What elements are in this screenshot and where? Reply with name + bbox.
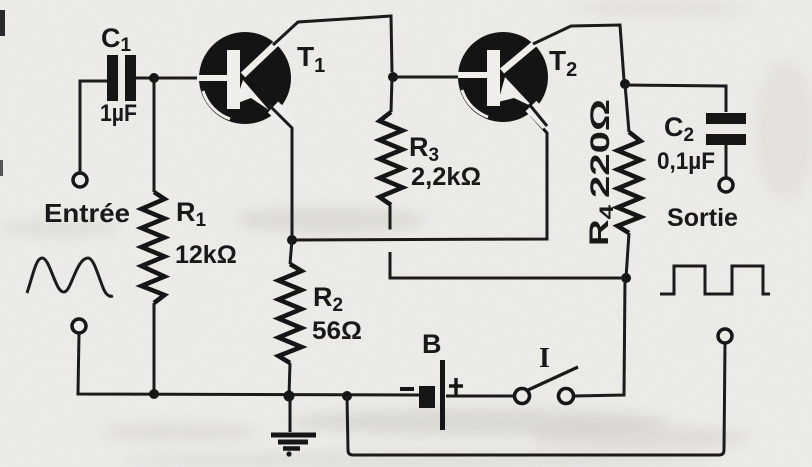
resistor R3 [380,112,403,205]
wire: ground rail [78,333,419,395]
node: bottom rail tap [342,391,352,401]
wire: emitter coupling line [292,115,547,240]
svg-text:Entrée: Entrée [44,198,130,228]
wire: T2 collector up to right column [533,25,624,80]
svg-text:56Ω: 56Ω [312,317,362,345]
node: supply / R4 bottom [621,273,631,283]
svg-text:220Ω: 220Ω [585,99,615,198]
transistor T2 [458,32,548,124]
wire: T2 emitter stub [529,104,547,126]
wire: T1 collector up to node A column [273,16,392,72]
transistor T1 [199,32,292,125]
svg-text:Sortie: Sortie [667,204,738,232]
resistor R4 [618,132,641,233]
terminal: Entree lower [72,319,86,333]
wire: R2 top lead [290,240,292,264]
resistor R1 [142,192,165,303]
switch I [515,367,579,404]
svg-text:0,1µF: 0,1µF [657,148,715,175]
battery B [400,360,463,430]
terminal: Entree upper [73,173,87,187]
svg-text:1µF: 1µF [100,100,137,127]
wire: R4 bottom lead [626,233,629,278]
capacitor C2 [706,113,746,178]
wire: T1 emitter down [269,105,292,240]
edge blemish top-left [0,10,5,36]
wire: supply node down to switch [574,278,625,396]
wire: T2 collector node to C2 [625,85,726,112]
wire: R1 bottom lead [153,303,156,394]
node A: T1 collector / T2 base / R3 top [388,72,398,82]
wire: R3 bottom lead upper segment (jump break) [389,205,392,230]
wire: R2 bottom lead [289,363,290,396]
node: T2 collector / R4 top / C2 [620,79,630,89]
wire: R3 top lead [391,77,392,112]
square wave (output) [660,266,770,294]
wire: node A to T2 base [393,76,458,79]
wire: battery + to switch [446,395,514,398]
node: T1 emitter / R2 top [287,235,297,245]
wire: bottom return rail to Sortie [347,343,725,455]
terminal: Sortie lower [718,329,732,343]
ground [271,396,316,449]
capacitor C1 [107,55,197,101]
wire: R1 top lead [153,78,156,192]
node: R1 bottom [149,389,159,399]
resistor R2 [279,264,302,363]
wire: input top lead from terminal to C1 [80,81,108,173]
node: R2 bottom / ground [284,391,295,402]
terminal: Sortie upper [719,178,733,192]
wire: R4 top lead [625,84,629,132]
svg-text:12kΩ: 12kΩ [175,241,237,269]
svg-text:2,2kΩ: 2,2kΩ [411,163,481,191]
wire: R3 bottom lead lower segment to supply line [390,252,621,278]
sine wave (input) [27,258,113,296]
svg-text:I: I [539,343,550,374]
node base T1 junction [149,73,159,83]
svg-text:B: B [422,329,442,359]
